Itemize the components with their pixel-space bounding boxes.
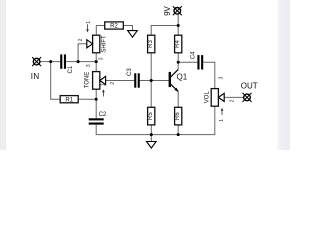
- wire R2 right to ground: [123, 26, 132, 31]
- ground bottom: [147, 142, 157, 149]
- connector J2 9V: [163, 5, 182, 15]
- resistor R2: [105, 22, 124, 30]
- connector J1 IN: [31, 57, 41, 81]
- wire C1 to pots junction: [66, 61, 96, 63]
- junction rail node R5: [150, 133, 153, 136]
- svg-text:1: 1: [86, 21, 92, 24]
- wire Q1 emitter to R6: [177, 92, 179, 108]
- junction node D R1/C2: [95, 98, 98, 101]
- wire SHIFT pin3 / TONE pin3 column: [95, 53, 97, 72]
- transistor Q1: [169, 69, 188, 92]
- potentiometer TONE: [84, 64, 116, 96]
- svg-text:R6: R6: [175, 112, 181, 120]
- wire base node up to R3: [150, 53, 152, 81]
- svg-text:3: 3: [99, 57, 105, 60]
- resistor R1: [60, 96, 78, 104]
- svg-text:IN: IN: [31, 72, 40, 81]
- potentiometer SHIFT: [78, 21, 108, 61]
- wire TONE wiper to C3: [105, 80, 134, 82]
- svg-text:9V: 9V: [163, 5, 172, 15]
- junction base node: [150, 79, 153, 82]
- capacitor C2: [89, 112, 107, 124]
- svg-text:TONE: TONE: [84, 72, 90, 89]
- junction collector node: [177, 61, 180, 64]
- junction supply node: [177, 24, 180, 27]
- svg-text:2: 2: [110, 82, 116, 85]
- wire R5 bottom lead: [150, 125, 152, 135]
- svg-text:R4: R4: [175, 40, 181, 48]
- potentiometer VOL: [205, 76, 236, 121]
- svg-text:R5: R5: [148, 112, 154, 120]
- svg-text:R3: R3: [148, 40, 154, 48]
- svg-text:OUT: OUT: [241, 82, 258, 91]
- wire ground rail middle: [151, 134, 178, 136]
- svg-text:2: 2: [230, 99, 236, 102]
- wire base node to Q1: [151, 80, 168, 82]
- connector J3 OUT: [241, 82, 258, 102]
- right page margin band: [277, 0, 290, 150]
- wire R1 right to node D: [78, 98, 96, 100]
- wire C3 to base node: [140, 80, 151, 82]
- svg-text:R1: R1: [65, 97, 73, 103]
- wire SHIFT pin1 to R2 left: [96, 26, 104, 36]
- wire node A down to R1 left: [51, 62, 61, 100]
- resistor R5: [148, 107, 155, 125]
- wire TONE pin1 to C2: [95, 89, 97, 118]
- junction node B pots input: [95, 60, 98, 63]
- svg-text:C3: C3: [127, 68, 133, 76]
- svg-text:C4: C4: [190, 51, 196, 59]
- capacitor C3: [127, 68, 140, 88]
- resistor R6: [175, 107, 182, 125]
- svg-text:3: 3: [86, 64, 92, 67]
- svg-text:3: 3: [219, 76, 225, 79]
- svg-text:VOL: VOL: [205, 91, 211, 104]
- wire ground stub bottom: [150, 135, 152, 142]
- left page margin band: [0, 0, 6, 150]
- wire R4 bottom to collector node: [177, 53, 179, 70]
- resistor R4: [175, 35, 182, 53]
- wire R6 bottom lead: [177, 125, 179, 135]
- svg-text:C1: C1: [68, 65, 74, 73]
- svg-text:C2: C2: [99, 112, 107, 118]
- capacitor C1: [60, 54, 74, 73]
- svg-text:Q1: Q1: [177, 73, 188, 82]
- wire ground rail right to VOL pin1: [178, 106, 215, 134]
- ground top (R2): [128, 31, 138, 38]
- svg-text:R2: R2: [110, 24, 118, 30]
- wire base node down to R5: [150, 81, 152, 108]
- svg-text:1: 1: [219, 119, 225, 122]
- junction node A: [49, 60, 52, 63]
- svg-text:SHIFT: SHIFT: [101, 35, 107, 53]
- capacitor C4: [190, 51, 203, 70]
- wire R3 top to supply rail: [151, 26, 178, 36]
- resistor R3: [148, 35, 155, 53]
- junction shift wiper node: [77, 60, 80, 63]
- wire IN to C1: [40, 61, 60, 63]
- wire C4 to VOL pin3: [203, 62, 215, 88]
- wire C2 bottom to ground rail: [96, 125, 151, 135]
- svg-text:2: 2: [78, 38, 84, 41]
- wire VOL wiper to OUT: [224, 96, 243, 98]
- wire shift wiper riser: [78, 44, 87, 62]
- svg-text:1: 1: [101, 83, 107, 86]
- wire collector node to C4: [178, 61, 197, 63]
- junction rail node R6: [177, 133, 180, 136]
- wire 9V down through node to R4: [177, 15, 179, 35]
